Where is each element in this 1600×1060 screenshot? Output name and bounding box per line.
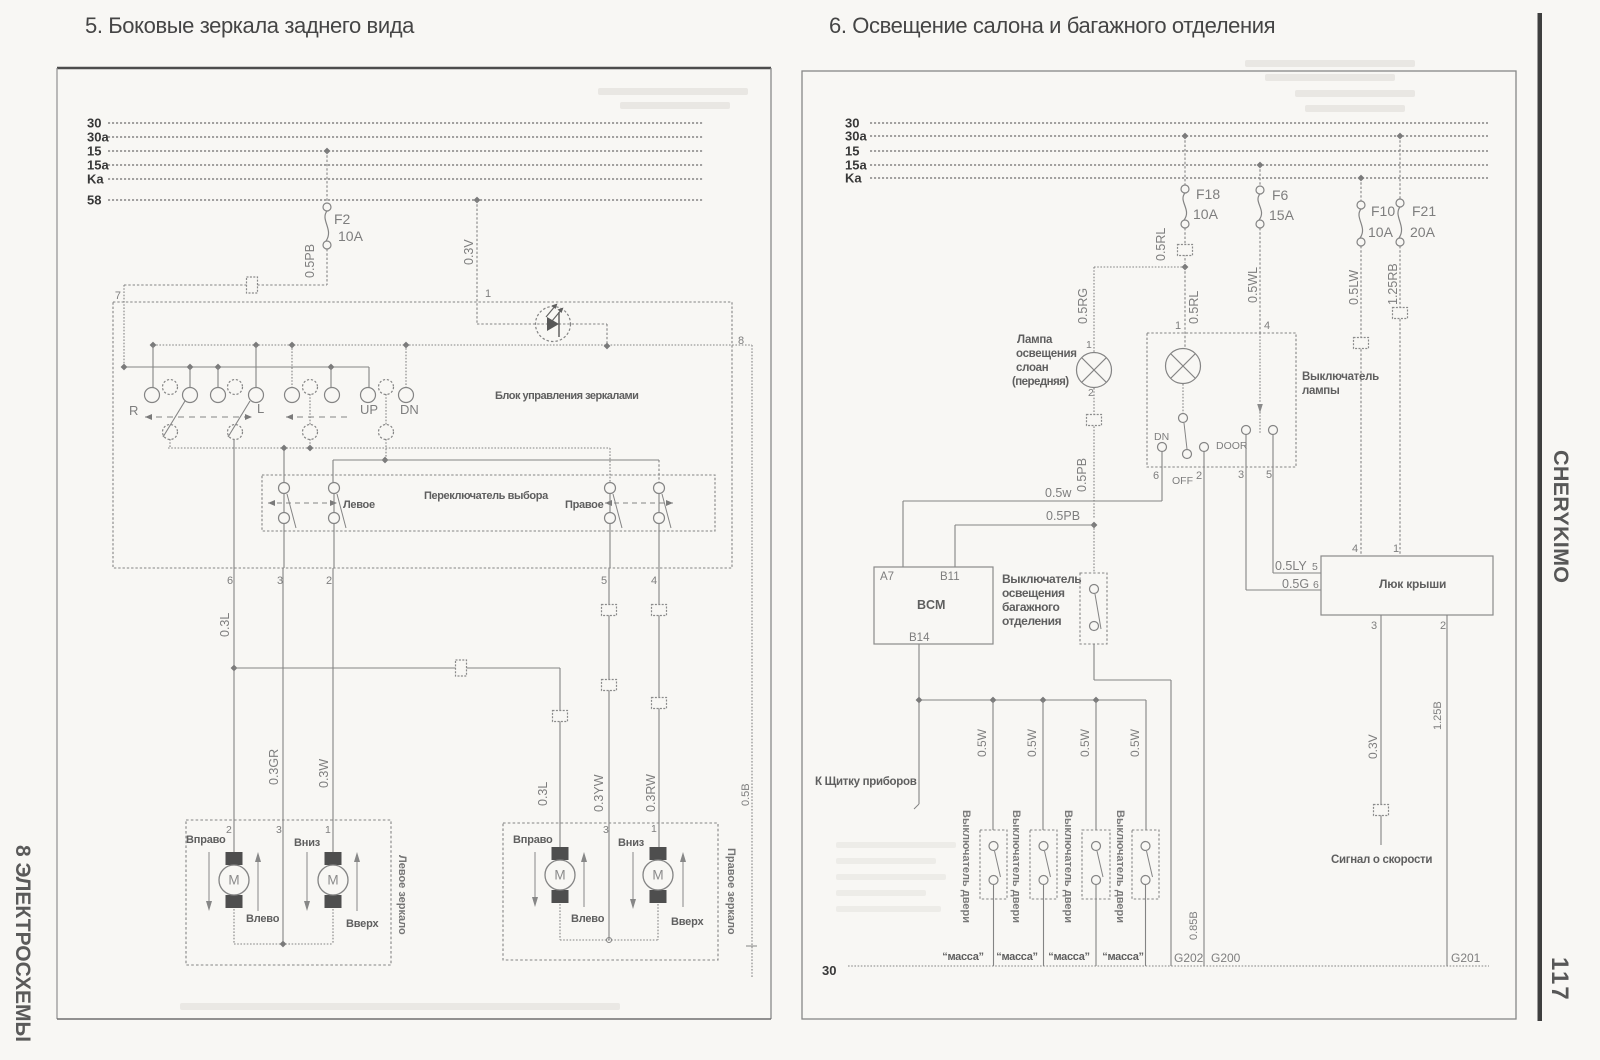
svg-text:6: 6 <box>1313 579 1319 591</box>
svg-text:8 ЭЛЕКТРОСХЕМЫ: 8 ЭЛЕКТРОСХЕМЫ <box>11 845 34 1042</box>
svg-text:0.3V: 0.3V <box>462 239 476 265</box>
svg-text:10A: 10A <box>1368 224 1394 240</box>
svg-text:“масса”: “масса” <box>942 951 984 963</box>
svg-text:F10: F10 <box>1371 203 1395 219</box>
svg-text:6. Освещение салона и багажног: 6. Освещение салона и багажного отделени… <box>829 13 1275 38</box>
svg-text:освещения: освещения <box>1002 586 1065 600</box>
svg-text:58: 58 <box>87 193 101 208</box>
svg-text:слоан: слоан <box>1016 362 1049 374</box>
svg-text:G200: G200 <box>1211 951 1241 965</box>
svg-text:15: 15 <box>87 144 101 159</box>
svg-text:2: 2 <box>226 824 232 836</box>
svg-text:отделения: отделения <box>1002 614 1062 628</box>
svg-text:1: 1 <box>1393 543 1399 555</box>
svg-text:0.3W: 0.3W <box>317 759 331 788</box>
svg-text:0.5RL: 0.5RL <box>1154 228 1168 261</box>
svg-text:Сигнал о скорости: Сигнал о скорости <box>1331 854 1432 866</box>
svg-text:G201: G201 <box>1451 951 1481 965</box>
svg-text:Переключатель выбора: Переключатель выбора <box>424 490 549 502</box>
svg-text:6: 6 <box>227 575 233 587</box>
svg-text:Люк крыши: Люк крыши <box>1379 577 1446 591</box>
svg-text:15: 15 <box>845 144 859 159</box>
svg-text:L: L <box>257 401 264 416</box>
svg-text:0.85B: 0.85B <box>1188 911 1200 940</box>
svg-text:4: 4 <box>1264 320 1270 332</box>
svg-text:Вверх: Вверх <box>346 918 379 930</box>
svg-text:Вправо: Вправо <box>513 834 553 846</box>
svg-text:0.5W: 0.5W <box>1128 728 1142 757</box>
svg-text:Лампа: Лампа <box>1017 334 1053 346</box>
svg-text:0.5LW: 0.5LW <box>1347 270 1361 305</box>
svg-text:10A: 10A <box>338 228 364 244</box>
svg-text:“масса”: “масса” <box>1048 951 1090 963</box>
svg-text:F18: F18 <box>1196 186 1220 202</box>
svg-text:1: 1 <box>1086 339 1092 351</box>
svg-text:3: 3 <box>1371 620 1377 632</box>
svg-text:0.5LY: 0.5LY <box>1275 559 1307 573</box>
svg-text:UP: UP <box>360 402 378 417</box>
svg-text:Выключатель двери: Выключатель двери <box>960 810 972 923</box>
svg-text:CHERYKIMO: CHERYKIMO <box>1549 450 1573 583</box>
svg-text:3: 3 <box>1238 469 1244 481</box>
svg-text:лампы: лампы <box>1302 385 1340 397</box>
svg-text:15A: 15A <box>1269 207 1295 223</box>
svg-text:Ka: Ka <box>87 172 104 187</box>
svg-text:R: R <box>129 403 138 418</box>
svg-text:M: M <box>228 873 239 888</box>
svg-text:2: 2 <box>1440 620 1446 632</box>
svg-text:Влево: Влево <box>571 913 605 925</box>
svg-text:30a: 30a <box>845 129 867 144</box>
svg-text:7: 7 <box>115 290 121 302</box>
svg-text:Блок управления зеркалами: Блок управления зеркалами <box>495 390 638 402</box>
svg-text:0.5W: 0.5W <box>1025 728 1039 757</box>
svg-text:20A: 20A <box>1410 224 1436 240</box>
svg-text:DOOR: DOOR <box>1216 440 1248 452</box>
svg-text:DN: DN <box>1154 431 1169 443</box>
svg-text:0.3YW: 0.3YW <box>592 774 606 812</box>
svg-text:0.5w: 0.5w <box>1045 486 1072 500</box>
svg-text:0.5W: 0.5W <box>1078 728 1092 757</box>
svg-text:Ka: Ka <box>845 171 862 186</box>
svg-text:1: 1 <box>325 824 331 836</box>
svg-text:Выключатель: Выключатель <box>1302 371 1379 383</box>
svg-text:A7: A7 <box>880 571 894 583</box>
svg-text:(передняя): (передняя) <box>1012 376 1069 388</box>
svg-text:0.5WL: 0.5WL <box>1246 267 1260 303</box>
svg-text:B14: B14 <box>909 632 930 644</box>
svg-text:освещения: освещения <box>1016 348 1077 360</box>
svg-text:DN: DN <box>400 402 419 417</box>
svg-text:“масса”: “масса” <box>996 951 1038 963</box>
svg-text:10A: 10A <box>1193 206 1219 222</box>
svg-text:0.5PB: 0.5PB <box>303 244 317 278</box>
svg-text:Выключатель двери: Выключатель двери <box>1114 810 1126 923</box>
svg-text:5: 5 <box>1312 561 1318 573</box>
svg-text:Левое зеркало: Левое зеркало <box>396 855 408 935</box>
svg-text:0.3RW: 0.3RW <box>644 774 658 812</box>
svg-text:1.25B: 1.25B <box>1432 701 1444 730</box>
svg-text:0.3GR: 0.3GR <box>267 749 281 785</box>
svg-text:1.25RB: 1.25RB <box>1386 263 1400 305</box>
svg-text:F21: F21 <box>1412 203 1436 219</box>
svg-text:Правое: Правое <box>565 499 604 511</box>
svg-text:30a: 30a <box>87 130 109 145</box>
svg-text:Левое: Левое <box>343 499 375 511</box>
svg-text:0.5G: 0.5G <box>1282 577 1309 591</box>
svg-text:3: 3 <box>277 575 283 587</box>
svg-text:M: M <box>652 868 663 883</box>
svg-text:Выключатель: Выключатель <box>1002 572 1081 586</box>
svg-text:5: 5 <box>601 575 607 587</box>
svg-text:2: 2 <box>1088 387 1094 399</box>
svg-text:30: 30 <box>87 116 101 131</box>
svg-text:2: 2 <box>1196 470 1202 482</box>
svg-text:багажного: багажного <box>1002 600 1059 614</box>
svg-text:G202: G202 <box>1174 951 1204 965</box>
svg-text:0.5RG: 0.5RG <box>1076 288 1090 324</box>
svg-text:2: 2 <box>326 575 332 587</box>
svg-text:1: 1 <box>485 288 491 300</box>
svg-text:“масса”: “масса” <box>1102 951 1144 963</box>
svg-text:OFF: OFF <box>1172 475 1193 487</box>
svg-text:4: 4 <box>1352 543 1358 555</box>
svg-text:0.5PB: 0.5PB <box>1046 509 1080 523</box>
svg-text:3: 3 <box>276 824 282 836</box>
svg-text:M: M <box>327 873 338 888</box>
svg-text:15a: 15a <box>87 158 109 173</box>
svg-text:0.5W: 0.5W <box>975 728 989 757</box>
svg-text:Вправо: Вправо <box>186 834 226 846</box>
svg-text:30: 30 <box>822 963 836 978</box>
svg-text:BCM: BCM <box>917 598 945 612</box>
svg-text:1: 1 <box>651 823 657 835</box>
svg-text:5: 5 <box>1266 469 1272 481</box>
svg-text:Выключатель двери: Выключатель двери <box>1062 810 1074 923</box>
svg-text:4: 4 <box>651 575 657 587</box>
svg-text:0.3L: 0.3L <box>218 613 232 637</box>
svg-text:117: 117 <box>1546 957 1573 1002</box>
svg-text:Вверх: Вверх <box>671 916 704 928</box>
svg-text:6: 6 <box>1153 470 1159 482</box>
svg-text:0.5B: 0.5B <box>740 783 752 806</box>
svg-text:Вниз: Вниз <box>294 837 321 849</box>
svg-text:1: 1 <box>1175 320 1181 332</box>
svg-text:К Щитку приборов: К Щитку приборов <box>815 776 917 788</box>
svg-text:F6: F6 <box>1272 187 1289 203</box>
svg-text:Вниз: Вниз <box>618 837 645 849</box>
svg-text:5. Боковые зеркала заднего вид: 5. Боковые зеркала заднего вида <box>85 13 415 38</box>
svg-text:0.5PB: 0.5PB <box>1075 458 1089 492</box>
svg-text:Влево: Влево <box>246 913 280 925</box>
svg-text:Выключатель двери: Выключатель двери <box>1010 810 1022 923</box>
svg-text:3: 3 <box>603 824 609 836</box>
svg-text:M: M <box>554 868 565 883</box>
svg-text:F2: F2 <box>334 211 351 227</box>
svg-text:0.3V: 0.3V <box>1366 734 1380 759</box>
svg-text:0.3L: 0.3L <box>536 782 550 806</box>
svg-text:0.5RL: 0.5RL <box>1187 291 1201 324</box>
svg-text:B11: B11 <box>940 571 960 583</box>
svg-text:Правое зеркало: Правое зеркало <box>725 848 737 935</box>
